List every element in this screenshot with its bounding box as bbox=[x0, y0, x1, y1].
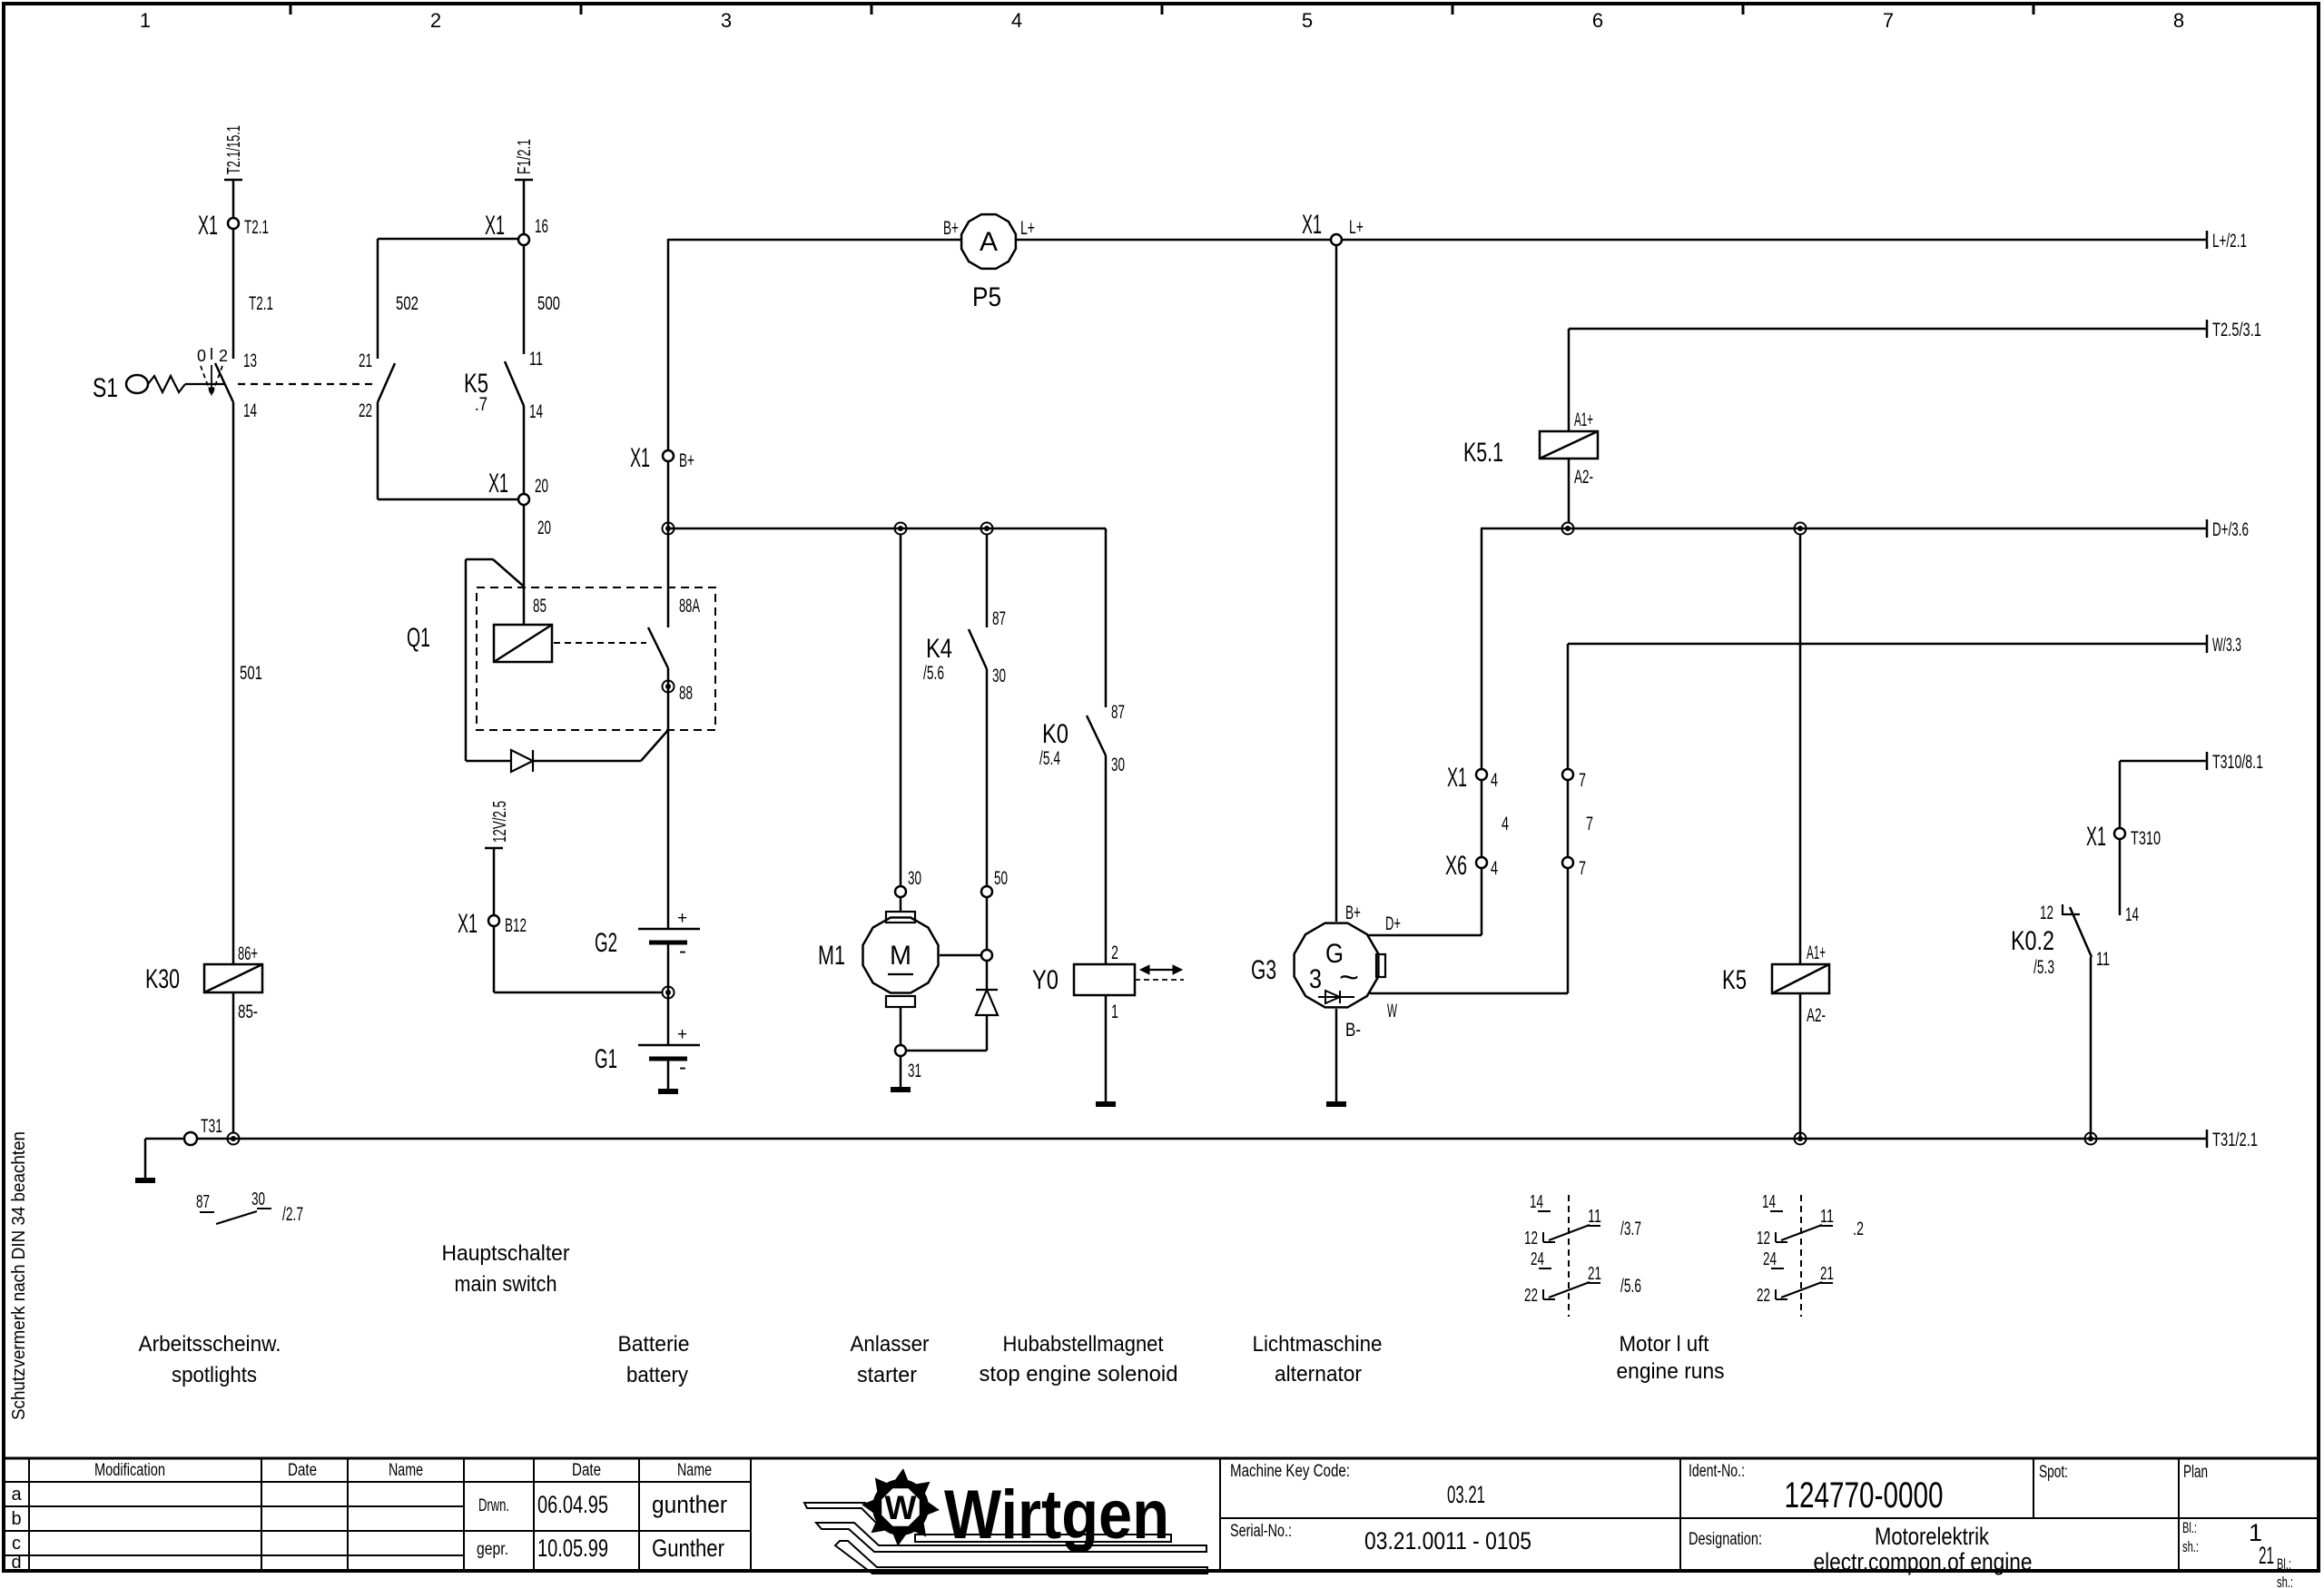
coil-contact link dashes bbox=[554, 642, 646, 644]
svg-text:K4: K4 bbox=[926, 634, 952, 664]
terminal X1:L+ bbox=[1331, 234, 1342, 245]
svg-text:B+: B+ bbox=[943, 218, 959, 239]
svg-text:24: 24 bbox=[1763, 1249, 1777, 1269]
actuator arrow Y0 bbox=[1146, 969, 1177, 971]
svg-text:X1: X1 bbox=[1302, 210, 1322, 240]
wire 50 branch from bus bbox=[986, 534, 989, 627]
ground G1 bbox=[658, 1089, 678, 1094]
svg-text:a: a bbox=[11, 1485, 22, 1505]
battery G2 bbox=[638, 928, 700, 931]
svg-text:A1+: A1+ bbox=[1807, 943, 1826, 963]
svg-text:/5.6: /5.6 bbox=[1620, 1276, 1641, 1297]
title block grid bbox=[4, 1457, 2319, 1460]
wire 4 middle bbox=[1481, 780, 1483, 857]
svg-text:87: 87 bbox=[196, 1192, 210, 1212]
svg-text:/2.7: /2.7 bbox=[282, 1204, 303, 1225]
terminal X1:T310 bbox=[2114, 828, 2125, 839]
svg-text:F1/2.1: F1/2.1 bbox=[515, 139, 535, 174]
svg-text:main switch: main switch bbox=[455, 1272, 557, 1297]
wire Q1:88 down to battery G2 bbox=[667, 668, 670, 929]
junction K30 bbox=[228, 1133, 240, 1145]
flag T2.1/15.1 bbox=[224, 179, 242, 182]
svg-text:14: 14 bbox=[1762, 1192, 1776, 1212]
svg-text:Ident-No.:: Ident-No.: bbox=[1689, 1462, 1745, 1481]
svg-text:B+: B+ bbox=[1345, 903, 1361, 923]
contact K5 21-22 blade bbox=[378, 363, 395, 402]
svg-text:alternator: alternator bbox=[1275, 1362, 1362, 1387]
svg-text:14: 14 bbox=[529, 401, 543, 422]
svg-text:X1: X1 bbox=[458, 909, 478, 939]
svg-text:31: 31 bbox=[908, 1061, 921, 1081]
diode G3 symbol bbox=[1318, 996, 1354, 998]
wire T310 to contact 14 bbox=[2119, 839, 2122, 915]
svg-text:30: 30 bbox=[908, 868, 921, 889]
wire T2.5 down to K5.1 bbox=[1568, 329, 1571, 431]
svg-text:engine runs: engine runs bbox=[1617, 1359, 1725, 1384]
wire K5.1 A2- to D+ bus bbox=[1568, 459, 1571, 523]
svg-text:22: 22 bbox=[359, 400, 372, 421]
junction K5.1 A2- bbox=[1562, 523, 1574, 535]
wire to terminal 31 bbox=[906, 1050, 987, 1052]
junction K5 A1+ bbox=[1795, 523, 1807, 535]
svg-text:K5.1: K5.1 bbox=[1463, 438, 1503, 468]
terminal X6:7 bbox=[1562, 857, 1573, 868]
svg-text:12V/2.5: 12V/2.5 bbox=[490, 801, 510, 843]
svg-text:X1: X1 bbox=[630, 443, 650, 473]
svg-text:Name: Name bbox=[389, 1461, 423, 1480]
svg-text:T2.1: T2.1 bbox=[244, 217, 269, 238]
svg-text:/5.4: /5.4 bbox=[1039, 748, 1060, 769]
svg-text:30: 30 bbox=[251, 1189, 265, 1209]
wire P5 to X1:L+ bbox=[1017, 239, 1331, 242]
wire Y0 to ground bbox=[1105, 995, 1108, 1101]
svg-text:gunther: gunther bbox=[652, 1491, 727, 1518]
svg-text:Date: Date bbox=[288, 1461, 317, 1480]
svg-text:A2-: A2- bbox=[1807, 1005, 1826, 1026]
wire B12 to battery junction bbox=[494, 992, 662, 994]
svg-text:500: 500 bbox=[537, 293, 560, 314]
svg-text:T310/8.1: T310/8.1 bbox=[2212, 752, 2263, 773]
svg-text:sh.:: sh.: bbox=[2182, 1538, 2199, 1555]
svg-text:W: W bbox=[885, 1489, 917, 1526]
svg-text:03.21: 03.21 bbox=[1447, 1481, 1485, 1508]
wire 22 down bbox=[377, 402, 379, 499]
svg-text:T2.1/15.1: T2.1/15.1 bbox=[224, 125, 244, 174]
svg-text:21: 21 bbox=[1588, 1264, 1601, 1284]
svg-text:b: b bbox=[11, 1509, 21, 1529]
svg-text:-: - bbox=[679, 1055, 686, 1080]
solenoid Y0 coil bbox=[1074, 964, 1135, 995]
svg-text:L+: L+ bbox=[1020, 218, 1035, 239]
terminal 30 bbox=[895, 886, 906, 897]
svg-text:85: 85 bbox=[533, 596, 547, 617]
svg-text:Arbeitsscheinw.: Arbeitsscheinw. bbox=[139, 1332, 281, 1357]
svg-text:12: 12 bbox=[1757, 1229, 1770, 1248]
svg-text:-: - bbox=[679, 939, 686, 963]
Wirtgen gear emblem bbox=[862, 1468, 940, 1546]
svg-text:7: 7 bbox=[1883, 9, 1894, 32]
svg-text:501: 501 bbox=[240, 663, 262, 684]
terminal M1 solenoid bbox=[981, 950, 992, 961]
wire diode to 31 bbox=[986, 1015, 989, 1051]
svg-text:7: 7 bbox=[1579, 858, 1586, 879]
svg-text:7: 7 bbox=[1586, 814, 1593, 834]
terminal X1:T2.1 bbox=[228, 218, 239, 229]
terminal X1:B12 bbox=[488, 915, 499, 926]
svg-text:W: W bbox=[1387, 1001, 1397, 1021]
svg-text:I: I bbox=[209, 345, 213, 363]
svg-text:Bl.:: Bl.: bbox=[2182, 1519, 2197, 1536]
svg-text:/3.7: /3.7 bbox=[1620, 1219, 1641, 1239]
relay K30 coil bbox=[204, 964, 262, 992]
wire T2.1 down to S1 contact bbox=[232, 229, 235, 359]
wire K30 85- to T31 bbox=[232, 992, 235, 1133]
svg-text:d: d bbox=[11, 1553, 21, 1573]
svg-text:~: ~ bbox=[1339, 961, 1359, 995]
svg-text:20: 20 bbox=[535, 476, 548, 497]
diode M1 bbox=[976, 989, 998, 991]
svg-text:Batterie: Batterie bbox=[618, 1332, 690, 1357]
svg-text:24: 24 bbox=[1531, 1249, 1544, 1269]
svg-text:4: 4 bbox=[1491, 770, 1498, 791]
wire 14 down to X1:20 bbox=[523, 406, 526, 494]
position pointer dashes bbox=[201, 366, 211, 393]
wire to X1:20 bbox=[378, 498, 518, 501]
flag T31/2.1 bbox=[2206, 1130, 2209, 1148]
terminal 50 bbox=[981, 886, 992, 897]
svg-text:03.21.0011 - 0105: 03.21.0011 - 0105 bbox=[1364, 1527, 1531, 1554]
svg-text:.2: .2 bbox=[1853, 1219, 1864, 1239]
svg-text:Motor l uft: Motor l uft bbox=[1620, 1332, 1709, 1357]
svg-text:30: 30 bbox=[1111, 755, 1125, 775]
svg-text:battery: battery bbox=[626, 1363, 688, 1387]
junction 50 wire bbox=[981, 523, 993, 535]
wire M1 to solenoid terminal bbox=[940, 954, 981, 957]
svg-text:+: + bbox=[677, 909, 687, 928]
mechanical link S1 to K5 contacts bbox=[238, 383, 377, 385]
svg-text:13: 13 bbox=[243, 350, 257, 371]
svg-text:Machine Key Code:: Machine Key Code: bbox=[1230, 1462, 1350, 1481]
wire W bus bbox=[1568, 643, 2207, 646]
svg-text:7: 7 bbox=[1579, 770, 1586, 791]
svg-text:87: 87 bbox=[992, 608, 1006, 629]
svg-text:3: 3 bbox=[1309, 964, 1322, 994]
wire to brush bbox=[900, 897, 902, 912]
svg-text:6: 6 bbox=[1592, 9, 1603, 32]
svg-text:502: 502 bbox=[396, 293, 419, 314]
brush M1 top bbox=[886, 912, 915, 923]
contact K0.2 NC seat bbox=[2062, 904, 2063, 915]
svg-text:4: 4 bbox=[1491, 858, 1498, 879]
svg-text:/5.3: /5.3 bbox=[2033, 957, 2054, 978]
wire to diode bbox=[986, 961, 989, 990]
svg-text:S1: S1 bbox=[93, 373, 118, 403]
svg-text:Q1: Q1 bbox=[407, 623, 430, 653]
svg-text:D+: D+ bbox=[1385, 913, 1401, 934]
svg-text:B12: B12 bbox=[505, 915, 527, 936]
svg-text:14: 14 bbox=[243, 400, 257, 421]
terminal X1:20 bbox=[518, 494, 529, 505]
svg-text:A: A bbox=[980, 227, 998, 257]
svg-text:124770-0000: 124770-0000 bbox=[1785, 1475, 1944, 1515]
svg-text:c: c bbox=[12, 1534, 21, 1554]
svg-text:L+: L+ bbox=[1349, 217, 1364, 238]
svg-text:W/3.3: W/3.3 bbox=[2212, 635, 2241, 656]
junction K5 A2- bbox=[1795, 1133, 1807, 1145]
svg-text:86+: 86+ bbox=[238, 943, 258, 964]
svg-text:06.04.95: 06.04.95 bbox=[537, 1491, 608, 1518]
Wirtgen logo underline band bbox=[915, 1535, 1171, 1542]
svg-text:16: 16 bbox=[535, 216, 548, 237]
wire 500 down bbox=[523, 245, 526, 354]
svg-text:3: 3 bbox=[721, 9, 732, 32]
svg-text:2: 2 bbox=[430, 9, 441, 32]
svg-text:20: 20 bbox=[537, 518, 551, 538]
svg-text:Y0: Y0 bbox=[1032, 965, 1059, 995]
wire K5 A2- to T31 bus bbox=[1799, 993, 1802, 1139]
svg-text:Bl.:: Bl.: bbox=[2277, 1555, 2291, 1573]
svg-text:87: 87 bbox=[1111, 702, 1125, 723]
svg-text:M: M bbox=[890, 941, 911, 971]
alternator G3 bbox=[1295, 923, 1379, 1008]
wire B- to ground bbox=[1335, 1009, 1338, 1101]
svg-text:X6: X6 bbox=[1445, 851, 1467, 881]
svg-text:X1: X1 bbox=[485, 211, 505, 241]
svg-text:K30: K30 bbox=[145, 964, 180, 994]
wire B+ from L+ corner down to X1:B+ bbox=[667, 239, 670, 450]
terminal X1:B+ bbox=[663, 450, 674, 461]
contact K0.2 blade bbox=[2070, 907, 2092, 957]
wire T310 to flag bbox=[2120, 760, 2207, 763]
svg-text:10.05.99: 10.05.99 bbox=[537, 1535, 608, 1562]
relay Q1 coil bbox=[494, 625, 552, 662]
wire T2.1 flag to X1 terminal bbox=[232, 180, 235, 218]
svg-text:Modification: Modification bbox=[94, 1461, 165, 1480]
wire T31 bus bbox=[197, 1138, 2207, 1140]
wire 501 down to K30 bbox=[232, 402, 235, 964]
svg-text:+: + bbox=[677, 1025, 687, 1044]
ground G3 bbox=[1326, 1101, 1346, 1107]
terminal X1:4 bbox=[1476, 769, 1487, 780]
svg-text:D+/3.6: D+/3.6 bbox=[2212, 519, 2249, 540]
terminal X1:16 bbox=[518, 234, 529, 245]
svg-text:50: 50 bbox=[994, 868, 1008, 889]
wire to ground bbox=[144, 1139, 147, 1178]
svg-text:Anlasser: Anlasser bbox=[851, 1332, 930, 1357]
wire D+ bus bbox=[1481, 528, 2207, 530]
svg-text:X1: X1 bbox=[2086, 822, 2106, 852]
svg-text:22: 22 bbox=[1524, 1286, 1538, 1306]
svg-text:A1+: A1+ bbox=[1574, 410, 1593, 430]
svg-text:12: 12 bbox=[2040, 903, 2053, 923]
wire junction to G1 bbox=[667, 992, 670, 1045]
contact K5 11-14 blade bbox=[505, 361, 524, 406]
junction K0.2 bbox=[2085, 1133, 2097, 1145]
svg-text:14: 14 bbox=[2125, 904, 2139, 925]
wire T31 left bbox=[145, 1138, 184, 1140]
diode in Q1 bbox=[511, 750, 533, 772]
wire 30 down to M1 bbox=[900, 534, 902, 886]
relay Q1 dashed enclosure bbox=[477, 587, 715, 730]
svg-text:Spot:: Spot: bbox=[2039, 1463, 2068, 1482]
wire 7 upper bbox=[1567, 644, 1570, 769]
wire M1 to 31 bbox=[900, 1007, 902, 1045]
svg-text:A2-: A2- bbox=[1574, 467, 1593, 488]
svg-text:T310: T310 bbox=[2131, 828, 2161, 849]
svg-text:Hubabstellmagnet: Hubabstellmagnet bbox=[1003, 1332, 1164, 1357]
svg-text:21: 21 bbox=[359, 350, 372, 371]
terminal T31 bbox=[184, 1132, 197, 1145]
wire 4 lower bbox=[1481, 868, 1483, 935]
wire 50 to M1 solenoid bbox=[986, 897, 989, 950]
svg-text:K5: K5 bbox=[1722, 965, 1747, 995]
svg-text:L+/2.1: L+/2.1 bbox=[2212, 231, 2247, 252]
flag L+/2.1 bbox=[2206, 231, 2209, 249]
svg-text:1: 1 bbox=[140, 9, 151, 32]
svg-text:21: 21 bbox=[1820, 1264, 1834, 1284]
wire K0 to Y0 bbox=[1105, 755, 1108, 964]
svg-text:spotlights: spotlights bbox=[172, 1363, 257, 1387]
column ticks top border bbox=[290, 4, 292, 15]
flag W/3.3 bbox=[2206, 635, 2209, 653]
svg-text:Serial-No.:: Serial-No.: bbox=[1230, 1522, 1292, 1541]
wire B+ down into Q1 bbox=[667, 461, 670, 627]
svg-text:85-: 85- bbox=[238, 1002, 258, 1022]
svg-text:1: 1 bbox=[1111, 1002, 1118, 1022]
battery G1 bbox=[638, 1044, 700, 1047]
terminal X1:7 bbox=[1562, 769, 1573, 780]
svg-text:Date: Date bbox=[572, 1461, 601, 1480]
contact Q1 blade 88A-88 bbox=[648, 627, 668, 668]
svg-text:Motorelektrik: Motorelektrik bbox=[1875, 1523, 1989, 1550]
wire W from G3 bbox=[1370, 992, 1568, 995]
svg-text:electr.compon.of engine: electr.compon.of engine bbox=[1814, 1548, 2033, 1575]
wire 4 upper bbox=[1481, 528, 1483, 769]
wire G1 to ground bbox=[667, 1059, 670, 1089]
wire 20 down to Q1 coil bbox=[523, 505, 526, 625]
svg-text:.7: .7 bbox=[475, 394, 487, 415]
svg-text:stop engine solenoid: stop engine solenoid bbox=[980, 1362, 1178, 1387]
flag F1/2.1 bbox=[515, 179, 533, 182]
svg-text:G1: G1 bbox=[595, 1044, 617, 1074]
svg-text:sh.:: sh.: bbox=[2277, 1574, 2293, 1589]
contact K4 blade bbox=[969, 629, 987, 669]
wire 502 down bbox=[377, 239, 379, 359]
wire K5 A1+ from D+ bus bbox=[1799, 534, 1802, 964]
svg-text:M1: M1 bbox=[818, 941, 845, 971]
position pointer bbox=[211, 365, 212, 389]
svg-text:K0: K0 bbox=[1042, 719, 1068, 749]
wire B12 down bbox=[493, 926, 496, 992]
contact K0 blade bbox=[1087, 716, 1106, 755]
svg-text:88A: 88A bbox=[679, 596, 700, 617]
svg-text:/5.6: /5.6 bbox=[923, 663, 944, 684]
terminal 31 bbox=[895, 1045, 906, 1056]
flag 12V/2.5 bbox=[485, 847, 503, 850]
wire B+ down to G3 bbox=[1335, 245, 1338, 922]
terminal X6:4 bbox=[1476, 857, 1487, 868]
ammeter P5 bbox=[961, 214, 1016, 269]
svg-text:starter: starter bbox=[857, 1363, 917, 1387]
ground Y0 bbox=[1096, 1101, 1116, 1107]
svg-text:X1: X1 bbox=[198, 211, 218, 241]
svg-text:Name: Name bbox=[677, 1461, 712, 1480]
Wirtgen logo road band bottom bbox=[835, 1541, 1207, 1574]
svg-text:30: 30 bbox=[992, 666, 1006, 686]
wire X1:16 to 502 branch bbox=[378, 238, 518, 241]
bypass diode branch bbox=[493, 559, 523, 586]
junction B12/G1 bbox=[663, 987, 675, 999]
svg-text:Designation:: Designation: bbox=[1689, 1530, 1762, 1549]
svg-text:gepr.: gepr. bbox=[477, 1540, 508, 1559]
junction B+ bus bbox=[663, 523, 675, 535]
ground T31 bbox=[135, 1178, 155, 1183]
svg-text:11: 11 bbox=[529, 349, 543, 370]
svg-text:Plan: Plan bbox=[2183, 1463, 2208, 1482]
svg-text:8: 8 bbox=[2173, 9, 2184, 32]
svg-text:22: 22 bbox=[1757, 1286, 1770, 1306]
terminal block G3 bbox=[1376, 954, 1385, 977]
svg-text:2: 2 bbox=[1111, 943, 1118, 963]
svg-text:G3: G3 bbox=[1251, 955, 1276, 985]
svg-text:T2.1: T2.1 bbox=[249, 293, 273, 314]
relay K5 coil bbox=[1772, 964, 1829, 993]
wire 12V to X1:B12 bbox=[493, 848, 496, 915]
svg-text:2: 2 bbox=[219, 347, 228, 365]
flag D+/3.6 bbox=[2206, 519, 2209, 538]
wire 20 bus bbox=[668, 528, 1106, 530]
svg-text:88: 88 bbox=[679, 683, 693, 704]
wire 7 lower bbox=[1567, 868, 1570, 993]
svg-text:G2: G2 bbox=[595, 928, 617, 958]
flag T2.5/3.1 bbox=[2206, 320, 2209, 338]
svg-text:Hauptschalter: Hauptschalter bbox=[442, 1241, 570, 1266]
svg-text:T31/2.1: T31/2.1 bbox=[2212, 1130, 2258, 1150]
switch S1 contact blade 13-14 bbox=[215, 363, 233, 402]
wire D+ from G3 bbox=[1368, 934, 1482, 937]
svg-text:K0.2: K0.2 bbox=[2011, 926, 2054, 956]
Wirtgen logo swoosh chevron A bbox=[804, 1503, 887, 1527]
svg-text:X1: X1 bbox=[488, 469, 508, 498]
svg-text:11: 11 bbox=[2096, 949, 2110, 970]
wire K0 branch down bbox=[1105, 528, 1108, 707]
junction 88 bbox=[663, 681, 675, 693]
svg-text:X1: X1 bbox=[1447, 763, 1467, 793]
svg-text:4: 4 bbox=[1011, 9, 1022, 32]
svg-text:11: 11 bbox=[1588, 1207, 1601, 1227]
junction 30 wire bbox=[895, 523, 907, 535]
brush M1 bottom bbox=[886, 996, 915, 1007]
wire T2.5 bus bbox=[1569, 328, 2207, 331]
wire B+ to ammeter P5 bbox=[668, 239, 960, 242]
svg-text:Lichtmaschine: Lichtmaschine bbox=[1253, 1332, 1383, 1357]
flag T310/8.1 bbox=[2206, 752, 2209, 770]
svg-text:Schutzvermerk nach DIN 34 beac: Schutzvermerk nach DIN 34 beachten bbox=[9, 1131, 29, 1420]
svg-text:Drwn.: Drwn. bbox=[478, 1496, 509, 1515]
svg-text:14: 14 bbox=[1530, 1192, 1543, 1212]
wire G2 to junction bbox=[667, 943, 670, 992]
motor M1 bbox=[863, 918, 939, 993]
svg-text:T31: T31 bbox=[201, 1116, 222, 1137]
svg-text:12: 12 bbox=[1524, 1229, 1538, 1248]
svg-text:0: 0 bbox=[197, 347, 206, 365]
wire K0.2 11 down to T31 bbox=[2090, 957, 2093, 1140]
wire T310 down bbox=[2119, 761, 2122, 828]
svg-text:T2.5/3.1: T2.5/3.1 bbox=[2212, 320, 2261, 340]
wire K4 to terminal 50 bbox=[986, 669, 989, 886]
wire 31 to ground bbox=[900, 1056, 902, 1087]
svg-text:11: 11 bbox=[1820, 1207, 1834, 1227]
